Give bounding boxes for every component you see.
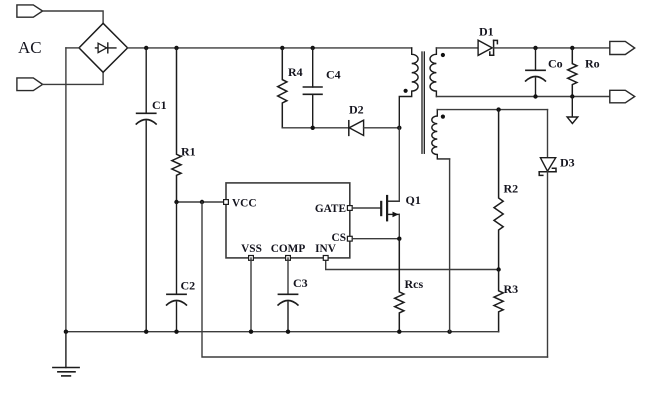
wire secondary bottom rail to output connector 2 (436, 96, 609, 98)
input connector J1 (top AC terminal) (17, 5, 43, 17)
output ground arrow symbol (567, 97, 578, 124)
transformer T1 primary winding (399, 48, 418, 128)
wire D3 bottom lead down right side (547, 172, 549, 357)
diode D1 (schottky) (478, 40, 497, 55)
node junction R1/C2/VCC (174, 200, 178, 204)
node junction top rail / R1 (174, 46, 178, 50)
wire from J2 to bridge bottom vertex (43, 72, 104, 84)
pin COMP (286, 256, 291, 261)
wire VCC line (R1 bottom to IC VCC pin) (177, 201, 227, 203)
node junction ground rail / earth (64, 330, 68, 334)
node junction R2/R3/INV (496, 267, 500, 271)
pin VCC (224, 200, 229, 205)
wire aux return vertical (449, 159, 451, 332)
capacitor Co (526, 48, 546, 97)
resistor R4 (278, 48, 287, 128)
node junction top rail / C4 (311, 46, 315, 50)
capacitor C2 (167, 202, 187, 332)
svg-text:D3: D3 (560, 155, 575, 169)
wire D1 cathode to output connector 1 (494, 47, 610, 49)
earth ground symbol (53, 332, 79, 376)
resistor R2 (494, 110, 503, 270)
svg-text:VCC: VCC (232, 198, 256, 210)
node junction ground rail / C1 (144, 330, 148, 334)
wire D3 top lead (547, 110, 549, 158)
pin GATE (347, 206, 352, 211)
svg-text:INV: INV (315, 243, 337, 255)
node junction bottom output rail / Co (533, 94, 537, 98)
node junction ground rail / Rcs (397, 330, 401, 334)
wire INV feedback line (326, 258, 499, 270)
bridge rectifier BR1 (diamond) (79, 23, 128, 72)
node junction ground rail / VSS (249, 330, 253, 334)
pin CS (347, 236, 352, 241)
resistor Ro (568, 48, 577, 97)
wire bridge left vertex stub (66, 47, 79, 49)
wire snubber bottom (R4 to D2 anode line) (282, 127, 349, 129)
svg-text:Co: Co (548, 57, 563, 71)
svg-text:R4: R4 (288, 65, 303, 79)
svg-text:R3: R3 (504, 282, 519, 296)
svg-text:D1: D1 (479, 24, 494, 38)
node junction output rail / Ro (570, 46, 574, 50)
transformer T1 secondary winding (430, 48, 436, 97)
svg-text:AC: AC (18, 38, 42, 57)
wire GATE to Q1 gate (352, 207, 381, 209)
svg-text:C1: C1 (152, 98, 167, 112)
diode D2 (349, 120, 364, 135)
svg-text:VSS: VSS (241, 243, 262, 255)
transformer secondary polarity dot (441, 53, 445, 57)
transformer T1 auxiliary winding (432, 110, 450, 159)
transformer auxiliary polarity dot (441, 115, 445, 119)
resistor R3 (494, 270, 503, 332)
node junction bottom output rail / Ro / ground arrow (570, 94, 574, 98)
node junction top rail / C1 (144, 46, 148, 50)
wire feedback wrap line (202, 202, 548, 357)
input connector J2 (bottom AC terminal) (17, 78, 43, 91)
node junction ground rail / aux return (447, 330, 451, 334)
capacitor C1 (136, 48, 156, 332)
controller IC U1 (226, 183, 350, 258)
node junction top rail / R4 (280, 46, 284, 50)
node junction CS / source line (397, 237, 401, 241)
svg-text:R1: R1 (181, 144, 196, 158)
wire left vertical (bridge left to ground rail) (65, 48, 67, 332)
transformer primary polarity dot (404, 89, 408, 93)
wire from J1 to bridge top vertex (43, 11, 104, 23)
svg-text:C2: C2 (181, 279, 196, 293)
node junction aux lead / R2 (496, 107, 500, 111)
zener diode D3 (539, 158, 556, 176)
wire D2 anode to drain node (364, 127, 400, 129)
node junction ground rail / C2 (174, 330, 178, 334)
capacitor C4 (303, 48, 322, 128)
wire Q1 source down to CS node (398, 214, 400, 238)
wire Q1 drain up to D2 node (398, 128, 400, 201)
svg-text:Ro: Ro (585, 57, 600, 71)
svg-text:GATE: GATE (315, 203, 346, 215)
wire VSS to ground rail (250, 258, 252, 332)
capacitor C3 (278, 294, 298, 331)
svg-text:COMP: COMP (271, 243, 306, 255)
svg-text:R2: R2 (504, 182, 519, 196)
wire secondary top to D1 (436, 47, 478, 49)
node junction output rail / Co (533, 46, 537, 50)
transformer core (422, 52, 424, 153)
wire ground rail (bottom) (66, 331, 499, 333)
output connector J4 (return terminal) (610, 90, 635, 103)
transistor Q1 (N-MOSFET) (381, 196, 387, 220)
node junction D2 / drain line (397, 126, 401, 130)
svg-text:D2: D2 (349, 102, 364, 116)
resistor R1 (172, 48, 181, 202)
node junction C4 bottom (311, 126, 315, 130)
wire top rail (bridge right vertex to transformer primary) (128, 47, 412, 49)
wire CS line (352, 238, 399, 240)
svg-text:C3: C3 (293, 276, 308, 290)
output connector J3 (V+ terminal) (610, 41, 635, 54)
pin VSS (249, 256, 254, 261)
wire aux top lead to D3 (437, 109, 547, 111)
pin INV (323, 256, 328, 261)
svg-text:Rcs: Rcs (405, 277, 424, 291)
wire COMP lead (287, 258, 289, 294)
resistor Rcs (395, 239, 404, 332)
node junction VCC line / feedback drop (200, 200, 204, 204)
svg-text:Q1: Q1 (406, 193, 421, 207)
node junction ground rail / C3 (286, 330, 290, 334)
svg-text:C4: C4 (326, 68, 341, 82)
